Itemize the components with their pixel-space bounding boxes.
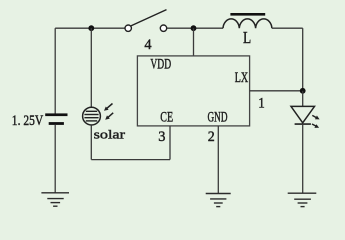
- wire LED cathode to ground: [302, 124, 304, 193]
- wire pin2 GND vertical: [217, 126, 219, 194]
- label VDD: [150, 57, 171, 73]
- pin number 4: [144, 37, 152, 53]
- battery B1 1.25V: [12, 113, 68, 129]
- svg-text:L: L: [243, 28, 251, 47]
- ground (right, LED): [288, 193, 317, 206]
- pin number 2: [208, 129, 215, 145]
- wire top-left horizontal rail: [55, 27, 125, 29]
- node junction VDD tap: [191, 25, 197, 31]
- svg-text:solar: solar: [94, 127, 126, 142]
- wire solar top vertical: [90, 28, 92, 107]
- label CE: [160, 110, 173, 126]
- label LX: [235, 70, 249, 86]
- wire right vertical down to LX node: [302, 28, 304, 91]
- svg-text:2: 2: [208, 129, 215, 145]
- inductor L: [223, 13, 272, 28]
- wire pin3 CE vertical: [169, 126, 171, 160]
- wire switch to inductor: [167, 27, 223, 29]
- wire solar bottom vertical: [90, 125, 92, 159]
- svg-text:1: 1: [258, 95, 265, 111]
- wire LED anode: [302, 91, 304, 107]
- svg-text:CE: CE: [160, 110, 173, 126]
- solar light arrow 1: [104, 104, 113, 111]
- wire pin1 LX horizontal: [250, 90, 303, 92]
- pin number 1: [258, 95, 265, 111]
- label solar: [94, 127, 126, 142]
- LED light arrow 2: [312, 124, 319, 128]
- wire left vertical (battery bottom to ground): [54, 125, 56, 193]
- svg-text:4: 4: [144, 37, 152, 53]
- solar light arrow 2: [105, 113, 113, 120]
- label GND: [208, 110, 228, 126]
- LED D1: [291, 106, 315, 124]
- node junction top (solar tap): [88, 25, 94, 31]
- svg-text:VDD: VDD: [150, 57, 171, 73]
- label L: [243, 28, 251, 47]
- wire inductor to right corner: [272, 27, 303, 29]
- solar cell PV1: [83, 107, 101, 125]
- wire pin4 VDD vertical: [193, 28, 195, 56]
- svg-text:GND: GND: [208, 110, 228, 126]
- ground (middle, GND pin): [206, 194, 231, 207]
- node junction LX/LED: [300, 88, 306, 94]
- IC U1 box: [137, 56, 249, 126]
- wire left vertical (battery top): [54, 28, 56, 113]
- wire solar to CE horizontal: [91, 159, 170, 161]
- svg-text:LX: LX: [235, 70, 249, 86]
- svg-text:1. 25V: 1. 25V: [12, 113, 44, 129]
- ground (left): [41, 193, 69, 206]
- svg-text:3: 3: [158, 129, 165, 145]
- pin number 3: [158, 129, 165, 145]
- LED light arrow 1: [312, 115, 319, 119]
- switch S1: [125, 10, 167, 32]
